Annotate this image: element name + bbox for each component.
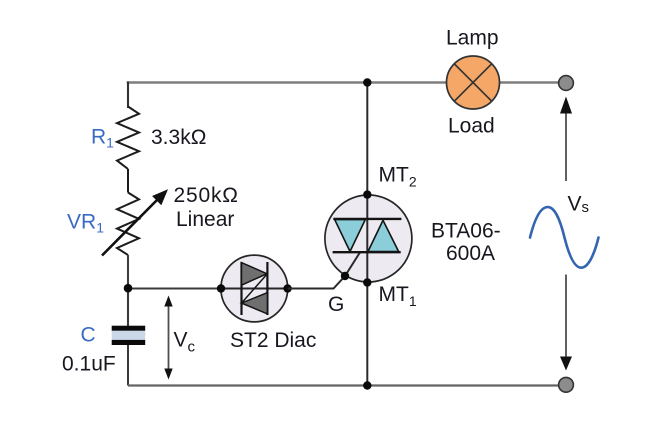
svg-text:R1: R1 xyxy=(91,125,114,150)
wire: node A to capacitor C top plate xyxy=(127,288,129,327)
svg-text:600A: 600A xyxy=(446,242,495,265)
diac right junction dot xyxy=(283,284,291,292)
svg-text:3.3kΩ: 3.3kΩ xyxy=(151,126,206,149)
wire: R1 to VR1 xyxy=(127,169,129,193)
diac U2 body xyxy=(221,255,288,322)
diac left bar xyxy=(240,262,242,315)
wire: through diac xyxy=(221,288,288,290)
triac bottom bar xyxy=(333,251,401,253)
capacitor C xyxy=(112,326,146,345)
terminal top-right xyxy=(559,76,574,91)
diac top triangle xyxy=(242,263,268,286)
svg-text:MT1: MT1 xyxy=(379,283,417,309)
diac left junction dot xyxy=(217,284,225,292)
wire: bottom rail xyxy=(128,384,566,386)
source arrow up xyxy=(560,97,572,182)
svg-text:G: G xyxy=(328,293,344,316)
svg-text:C: C xyxy=(81,324,96,347)
triac body xyxy=(325,195,412,282)
svg-text:MT2: MT2 xyxy=(379,164,417,190)
diac bottom triangle xyxy=(242,293,268,314)
wire: lamp to top-right terminal xyxy=(499,81,566,84)
triac right triangle xyxy=(368,220,399,251)
potentiometer VR1 zigzag xyxy=(117,193,139,256)
wire: node A to diac xyxy=(128,288,221,290)
wire: gate to diac xyxy=(288,252,360,288)
top rail junction dot xyxy=(363,78,371,86)
triac MT2 junction dot xyxy=(363,190,371,198)
diac diagonal xyxy=(242,274,268,303)
svg-text:ST2 Diac: ST2 Diac xyxy=(230,329,316,352)
bottom rail junction dot xyxy=(363,381,371,389)
resistor R1 zigzag xyxy=(117,107,139,170)
wire: capacitor C to bottom rail xyxy=(127,345,129,386)
svg-text:0.1uF: 0.1uF xyxy=(62,353,116,376)
triac gate junction dot xyxy=(341,272,349,280)
diac right bar xyxy=(266,262,268,315)
potentiometer VR1 arrow xyxy=(102,189,168,255)
triac MT1 junction dot xyxy=(363,278,371,286)
source arrow down xyxy=(560,275,572,371)
svg-text:Vc: Vc xyxy=(174,329,196,356)
svg-text:Load: Load xyxy=(448,115,495,138)
triac top bar xyxy=(333,218,401,220)
triac left triangle xyxy=(335,220,366,252)
wire: MT2 branch and MT1 branch through triac xyxy=(366,83,368,386)
svg-text:VR1: VR1 xyxy=(67,211,104,236)
source sine wave xyxy=(530,207,599,268)
lamp cross xyxy=(454,64,491,101)
voltage arrow Vc xyxy=(164,296,172,380)
node A junction dot xyxy=(124,284,133,293)
lamp body xyxy=(447,56,500,109)
wire: VR1 to node A xyxy=(127,255,129,326)
terminal bottom-right xyxy=(559,377,574,392)
svg-text:BTA06-: BTA06- xyxy=(431,220,501,243)
svg-text:Linear: Linear xyxy=(176,208,234,231)
svg-text:Lamp: Lamp xyxy=(446,26,499,49)
svg-text:250kΩ: 250kΩ xyxy=(174,184,239,207)
wire: top rail from top-left corner to lamp xyxy=(127,81,447,84)
svg-text:Vs: Vs xyxy=(568,193,590,217)
